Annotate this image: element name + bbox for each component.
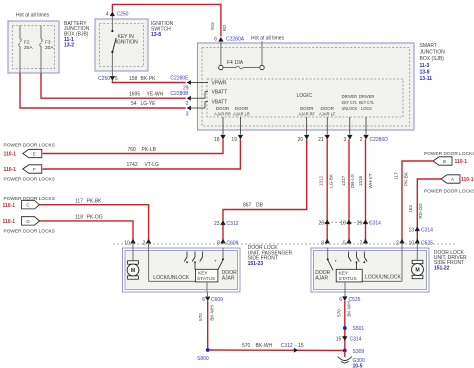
svg-text:C525: C525 bbox=[421, 240, 433, 246]
svg-text:110-1: 110-1 bbox=[3, 219, 16, 225]
svg-text:C250: C250 bbox=[98, 76, 110, 82]
svg-text:LOCK/UNLOCK: LOCK/UNLOCK bbox=[365, 274, 402, 280]
svg-text:DB-LG: DB-LG bbox=[350, 174, 355, 188]
svg-text:1695: 1695 bbox=[129, 91, 140, 97]
svg-text:IGNITION: IGNITION bbox=[116, 40, 139, 46]
svg-text:KEY CYL: KEY CYL bbox=[359, 100, 375, 105]
svg-text:POWER DOOR LOCKS: POWER DOOR LOCKS bbox=[4, 143, 55, 149]
svg-text:PK-OG: PK-OG bbox=[87, 215, 103, 221]
svg-text:13-8: 13-8 bbox=[151, 32, 161, 38]
svg-text:S501: S501 bbox=[353, 326, 365, 332]
svg-text:KEY: KEY bbox=[339, 271, 349, 277]
svg-text:VBATT: VBATT bbox=[212, 100, 228, 106]
svg-text:YE-WH: YE-WH bbox=[147, 91, 164, 97]
svg-text:10: 10 bbox=[340, 221, 346, 227]
svg-text:C314: C314 bbox=[421, 227, 433, 233]
svg-text:DOOR: DOOR bbox=[216, 106, 230, 111]
svg-text:19: 19 bbox=[231, 137, 237, 143]
svg-text:Hot at all times: Hot at all times bbox=[251, 36, 285, 42]
svg-text:26: 26 bbox=[357, 221, 363, 227]
svg-text:10: 10 bbox=[124, 240, 130, 246]
svg-text:DRIVER: DRIVER bbox=[342, 94, 358, 99]
svg-text:110-1: 110-1 bbox=[455, 159, 468, 165]
svg-text:2: 2 bbox=[360, 137, 363, 143]
svg-text:BK-WH: BK-WH bbox=[209, 305, 214, 320]
svg-text:151-22: 151-22 bbox=[434, 265, 450, 271]
svg-text:DOOR: DOOR bbox=[235, 106, 249, 111]
svg-text:POWER DOOR LOCKS: POWER DOOR LOCKS bbox=[4, 229, 55, 235]
svg-text:15: 15 bbox=[336, 337, 342, 343]
svg-text:23: 23 bbox=[318, 221, 324, 227]
svg-text:C314: C314 bbox=[350, 337, 362, 343]
svg-text:5: 5 bbox=[343, 240, 346, 246]
svg-text:C609: C609 bbox=[211, 297, 223, 303]
svg-text:VBATT: VBATT bbox=[212, 90, 228, 96]
svg-text:54: 54 bbox=[131, 101, 137, 107]
svg-text:570: 570 bbox=[337, 309, 342, 317]
svg-text:POWER DOOR LOCKS: POWER DOOR LOCKS bbox=[424, 189, 474, 195]
svg-text:C609: C609 bbox=[227, 240, 239, 246]
svg-text:AJAR RF: AJAR RF bbox=[298, 112, 315, 117]
svg-text:KEY: KEY bbox=[198, 271, 208, 277]
svg-text:570: 570 bbox=[242, 343, 251, 349]
svg-text:10-5: 10-5 bbox=[353, 364, 363, 368]
svg-text:RD: RD bbox=[222, 24, 227, 31]
svg-text:POWER DOOR LOCKS: POWER DOOR LOCKS bbox=[4, 176, 55, 182]
svg-text:WH-VT: WH-VT bbox=[368, 173, 373, 188]
svg-text:570: 570 bbox=[198, 313, 203, 321]
svg-text:20: 20 bbox=[298, 137, 304, 143]
svg-text:AJAR RR: AJAR RR bbox=[214, 112, 231, 117]
svg-text:BK-PK: BK-PK bbox=[141, 76, 157, 82]
svg-text:AJAR LR: AJAR LR bbox=[233, 112, 250, 117]
svg-text:867: 867 bbox=[243, 203, 252, 209]
svg-text:S800: S800 bbox=[197, 356, 209, 362]
svg-text:F4 10A: F4 10A bbox=[227, 60, 244, 66]
svg-text:C2280E: C2280E bbox=[170, 75, 189, 81]
svg-text:110-1: 110-1 bbox=[4, 152, 17, 158]
svg-text:110-1: 110-1 bbox=[3, 203, 16, 209]
svg-text:M: M bbox=[415, 268, 419, 274]
svg-text:C2280B: C2280B bbox=[170, 91, 189, 97]
svg-text:2: 2 bbox=[143, 240, 146, 246]
svg-text:VPWR: VPWR bbox=[212, 81, 227, 87]
svg-text:LOCK/UNLOCK: LOCK/UNLOCK bbox=[153, 275, 190, 281]
svg-text:AJAR: AJAR bbox=[222, 276, 235, 282]
svg-text:6: 6 bbox=[339, 297, 342, 303]
svg-text:8: 8 bbox=[217, 240, 220, 246]
svg-text:DOOR: DOOR bbox=[300, 106, 314, 111]
svg-text:20A: 20A bbox=[24, 45, 33, 51]
svg-text:AJAR: AJAR bbox=[315, 276, 328, 282]
svg-text:Hot at all times: Hot at all times bbox=[16, 13, 50, 19]
svg-text:PK-BK: PK-BK bbox=[403, 171, 408, 186]
svg-text:RD-OG: RD-OG bbox=[418, 203, 423, 219]
svg-text:POWER DOOR LOCKS: POWER DOOR LOCKS bbox=[424, 151, 474, 157]
svg-text:13-11: 13-11 bbox=[420, 76, 433, 82]
svg-text:BK-WH: BK-WH bbox=[256, 343, 273, 349]
svg-text:JUNCTION: JUNCTION bbox=[420, 50, 446, 56]
svg-text:C312: C312 bbox=[227, 221, 239, 227]
svg-text:4: 4 bbox=[106, 12, 109, 18]
svg-text:PK-BK: PK-BK bbox=[87, 198, 103, 204]
svg-text:7: 7 bbox=[360, 240, 363, 246]
svg-text:F2: F2 bbox=[24, 40, 30, 46]
svg-text:DRIVER: DRIVER bbox=[359, 94, 375, 99]
svg-text:10: 10 bbox=[409, 240, 415, 246]
svg-text:UNLOCK: UNLOCK bbox=[342, 106, 358, 111]
svg-text:13-8: 13-8 bbox=[420, 69, 430, 75]
svg-text:1742: 1742 bbox=[127, 162, 138, 168]
svg-text:KEY CYL: KEY CYL bbox=[342, 100, 358, 105]
svg-text:110-1: 110-1 bbox=[461, 177, 474, 183]
svg-text:BOX (SJB): BOX (SJB) bbox=[420, 56, 445, 62]
svg-text:151-23: 151-23 bbox=[248, 261, 264, 267]
svg-text:760: 760 bbox=[128, 147, 137, 153]
svg-text:+: + bbox=[335, 258, 338, 263]
svg-text:23: 23 bbox=[214, 221, 220, 227]
svg-text:+: + bbox=[214, 258, 217, 263]
svg-text:8: 8 bbox=[321, 240, 324, 246]
svg-text:6: 6 bbox=[202, 297, 205, 303]
svg-text:11-3: 11-3 bbox=[420, 63, 430, 69]
svg-text:1317: 1317 bbox=[341, 175, 346, 186]
svg-text:SMART: SMART bbox=[420, 43, 437, 49]
svg-text:F3: F3 bbox=[45, 40, 51, 46]
svg-text:LG-BK: LG-BK bbox=[328, 173, 333, 188]
svg-text:1316: 1316 bbox=[358, 175, 363, 186]
svg-text:- 15: - 15 bbox=[295, 343, 304, 349]
svg-text:S309: S309 bbox=[353, 349, 365, 355]
svg-text:STATUS: STATUS bbox=[339, 276, 357, 282]
svg-text:118: 118 bbox=[75, 215, 83, 221]
svg-text:110-1: 110-1 bbox=[4, 167, 17, 173]
svg-text:F: F bbox=[33, 167, 36, 172]
svg-text:2: 2 bbox=[186, 101, 189, 107]
svg-text:E: E bbox=[33, 152, 36, 157]
svg-text:163: 163 bbox=[408, 205, 413, 213]
svg-text:LOGIC: LOGIC bbox=[297, 93, 313, 99]
svg-text:1312: 1312 bbox=[319, 175, 324, 186]
svg-text:C250: C250 bbox=[117, 12, 129, 18]
svg-text:117: 117 bbox=[75, 198, 83, 204]
svg-text:2: 2 bbox=[396, 240, 399, 246]
svg-text:DB: DB bbox=[256, 203, 264, 209]
svg-text:13-2: 13-2 bbox=[64, 43, 74, 49]
svg-text:LOCK: LOCK bbox=[361, 106, 372, 111]
svg-text:B: B bbox=[443, 159, 446, 164]
svg-text:C314: C314 bbox=[369, 221, 381, 227]
svg-text:BK-WH: BK-WH bbox=[347, 301, 352, 316]
svg-text:LG-YE: LG-YE bbox=[141, 101, 157, 107]
svg-text:5: 5 bbox=[115, 76, 118, 82]
svg-text:915: 915 bbox=[210, 22, 215, 30]
svg-text:C2280A: C2280A bbox=[226, 37, 245, 43]
svg-text:117: 117 bbox=[394, 172, 399, 180]
svg-text:C2280D: C2280D bbox=[370, 137, 389, 143]
svg-text:M: M bbox=[131, 268, 135, 274]
svg-text:PK-LB: PK-LB bbox=[142, 147, 157, 153]
svg-text:20A: 20A bbox=[45, 45, 54, 51]
svg-text:13: 13 bbox=[408, 227, 414, 233]
svg-text:VT-LG: VT-LG bbox=[145, 162, 160, 168]
svg-text:6: 6 bbox=[214, 37, 217, 43]
svg-text:AJAR LF: AJAR LF bbox=[319, 112, 336, 117]
svg-text:158: 158 bbox=[129, 76, 138, 82]
svg-text:18: 18 bbox=[214, 137, 220, 143]
svg-text:21: 21 bbox=[318, 137, 324, 143]
svg-text:DOOR: DOOR bbox=[320, 106, 334, 111]
svg-text:C312: C312 bbox=[281, 343, 293, 349]
svg-text:STATUS: STATUS bbox=[197, 276, 215, 282]
svg-text:3: 3 bbox=[186, 112, 189, 118]
svg-text:3: 3 bbox=[344, 137, 347, 143]
